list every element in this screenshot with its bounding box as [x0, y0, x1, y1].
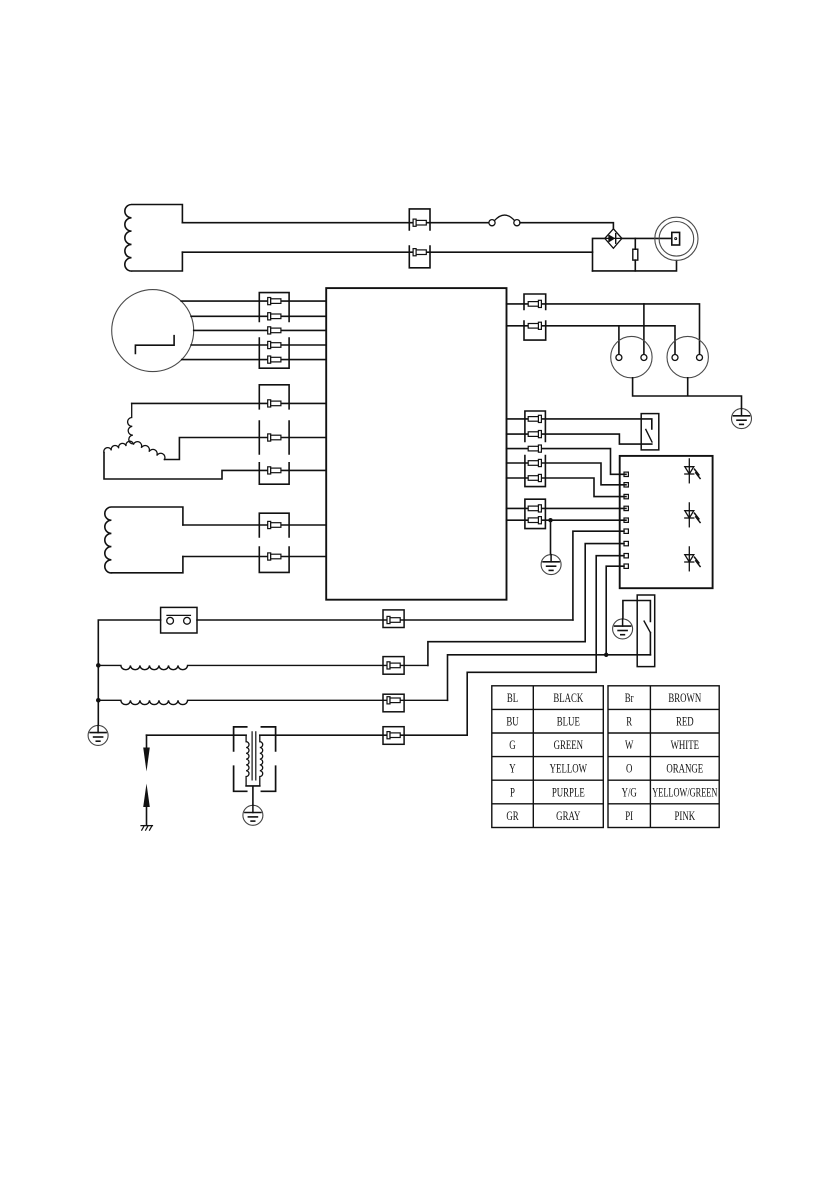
wire receptacle grounds — [633, 378, 742, 409]
connector pin — [268, 341, 281, 348]
wire to ground G2 — [550, 520, 552, 554]
connector pin — [528, 415, 541, 422]
circuit breaker (two-circle box) — [161, 607, 197, 633]
connector pin — [268, 356, 281, 363]
junction dot riser4 — [604, 653, 608, 657]
wire ignition primary — [147, 734, 468, 736]
svg-text:YELLOW: YELLOW — [550, 762, 588, 776]
connector pin — [413, 249, 426, 256]
svg-text:R: R — [626, 715, 632, 729]
connector pin — [268, 298, 281, 305]
connector block G — [525, 499, 546, 528]
connector pin — [528, 445, 541, 452]
lamp coil L1 (scalloped block) — [125, 205, 183, 272]
riser 3 — [467, 556, 624, 736]
junction dot — [548, 518, 552, 522]
svg-text:P: P — [510, 786, 515, 800]
svg-text:BLUE: BLUE — [557, 715, 580, 729]
wire L1 bottom — [182, 251, 592, 253]
riser 2 — [428, 544, 624, 666]
pilot lamp unit box U2 — [620, 456, 713, 588]
wire charge 2 — [183, 556, 326, 558]
connector pin — [268, 434, 281, 441]
chassis ground hatch — [141, 826, 153, 831]
receptacle 2 — [667, 336, 708, 377]
svg-text:GRAY: GRAY — [556, 809, 580, 823]
wire branch to receptacle 1 right pin — [643, 304, 645, 355]
connector pin — [528, 300, 541, 307]
svg-text:PI: PI — [625, 809, 633, 823]
connector box H1 — [383, 610, 404, 628]
ground G4 — [88, 725, 108, 745]
ground G3 — [613, 619, 633, 639]
wire magneto 3 — [194, 329, 327, 331]
control unit box U1 — [326, 288, 506, 600]
diode rectifier D1 (diamond) — [605, 229, 622, 249]
fuse F1 — [489, 215, 520, 226]
wire magneto 4 — [191, 344, 326, 346]
svg-text:YELLOW/GREEN: YELLOW/GREEN — [652, 786, 717, 800]
connector pin — [268, 400, 281, 407]
table text — [506, 691, 717, 823]
connector pin — [528, 517, 541, 524]
connector pin — [387, 662, 400, 669]
svg-text:PURPLE: PURPLE — [552, 786, 585, 800]
T1 secondary winding — [260, 735, 263, 786]
connector pin — [268, 467, 281, 474]
flywheel magneto circle — [112, 290, 194, 372]
spark plug gap — [143, 735, 150, 825]
svg-text:ORANGE: ORANGE — [666, 762, 703, 776]
wire to pilot unit pin5 — [507, 519, 627, 521]
svg-text:BLACK: BLACK — [553, 691, 583, 705]
connector box E — [524, 294, 546, 340]
connector pin — [268, 521, 281, 528]
engine stop switch SW1 — [641, 414, 659, 450]
junction dot bus 2 — [96, 698, 101, 703]
connector pin — [387, 697, 400, 704]
wire phase1 out — [132, 402, 327, 404]
winding phase 1 (vertical coil) — [128, 403, 134, 444]
wire receptacle neutral — [507, 326, 676, 355]
connector ticks C7 — [259, 421, 289, 454]
connector pin — [268, 553, 281, 560]
winding phase 2 (down-left coil) — [104, 441, 134, 452]
connector block F — [525, 411, 546, 487]
wire to oil switch top — [623, 601, 651, 622]
wire to pilot unit pin1 — [507, 449, 627, 475]
wire branch to receptacle 1 left pin — [618, 326, 620, 355]
wire diode left leg — [593, 238, 605, 271]
inductor coil 2 — [98, 700, 447, 704]
svg-text:BL: BL — [507, 691, 518, 705]
connector block A (5 pins) — [259, 293, 289, 369]
svg-text:WHITE: WHITE — [671, 739, 700, 753]
wire diode to meter — [622, 237, 672, 239]
T1 primary winding — [246, 735, 249, 786]
wire fuse to diode — [520, 223, 613, 229]
connector pin — [528, 322, 541, 329]
riser 4 — [606, 566, 624, 655]
junction dot bus 1 — [96, 663, 101, 668]
wire magneto 5 — [182, 359, 327, 361]
svg-text:Br: Br — [625, 691, 634, 705]
inductor coil 1 — [98, 665, 428, 669]
connector pin — [528, 431, 541, 438]
connector pin — [413, 219, 426, 226]
wire to pilot unit pin3 — [507, 478, 627, 497]
wire charge 1 — [183, 524, 326, 526]
svg-text:PINK: PINK — [674, 809, 695, 823]
wire phase3 out — [165, 438, 327, 460]
wire L1 top to fuse — [182, 222, 489, 224]
connector pin — [528, 459, 541, 466]
connector box H2 — [383, 657, 404, 675]
ground G5 — [243, 805, 263, 825]
wire oil switch line — [448, 655, 651, 701]
oil level switch SW2 — [637, 595, 655, 667]
T1 core — [252, 732, 256, 780]
charge coil block — [105, 507, 183, 573]
LED 3 — [685, 547, 700, 571]
receptacle 1 — [611, 336, 652, 377]
table right — [608, 686, 719, 828]
wire phase2 out — [104, 453, 326, 480]
connector pin — [528, 505, 541, 512]
pin squares — [624, 472, 628, 568]
connector block D — [259, 513, 289, 572]
magneto inner mark — [135, 336, 174, 354]
LED 1 — [685, 459, 700, 483]
wire to pilot unit pin4 — [507, 507, 627, 509]
table left — [492, 686, 604, 828]
svg-text:Y/G: Y/G — [622, 786, 637, 800]
ground G1 — [732, 409, 752, 429]
svg-text:GREEN: GREEN — [554, 739, 583, 753]
svg-text:GR: GR — [506, 809, 519, 823]
connector pin — [268, 313, 281, 320]
resistor R1 — [633, 238, 638, 271]
LED 2 — [685, 503, 700, 527]
wire to pilot unit pin2 — [507, 463, 627, 485]
wire switch 1 — [507, 419, 652, 429]
wire switch 2 — [507, 434, 652, 444]
hour meter M1 — [655, 217, 698, 260]
svg-text:BROWN: BROWN — [668, 691, 701, 705]
connector pin — [528, 474, 541, 481]
connector pin — [387, 616, 400, 623]
connector box CB1 — [409, 209, 430, 268]
wire magneto 1 — [181, 300, 326, 302]
wire magneto 2 — [191, 315, 326, 317]
wire bus top — [98, 620, 160, 725]
connector box H4 — [383, 727, 404, 745]
wire breaker to connector to riser1 — [197, 619, 573, 621]
wire receptacle hot — [507, 304, 700, 355]
connector box B — [259, 385, 289, 409]
connector pin — [268, 327, 281, 334]
bottom return wire — [593, 261, 677, 271]
connector pin — [387, 732, 400, 739]
ignition coil T1 (bracket box) — [234, 727, 276, 791]
svg-text:Y: Y — [509, 762, 515, 776]
winding phase 3 (down-right coil) — [134, 442, 165, 460]
connector box C — [259, 463, 289, 484]
svg-text:W: W — [625, 739, 634, 753]
svg-text:O: O — [626, 762, 632, 776]
svg-text:RED: RED — [676, 715, 694, 729]
riser 1 — [573, 531, 624, 620]
T1 bottom tie — [246, 786, 260, 805]
connector box H3 — [383, 694, 404, 712]
svg-text:G: G — [509, 739, 515, 753]
ground G2 — [541, 555, 561, 575]
svg-text:BU: BU — [506, 715, 518, 729]
